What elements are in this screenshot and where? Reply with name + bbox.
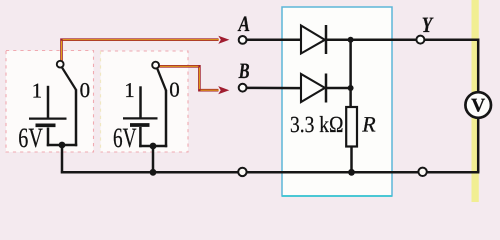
- svg-text:3.3 kΩ: 3.3 kΩ: [290, 112, 344, 137]
- terminal A: [239, 36, 247, 44]
- diode D2: [301, 74, 326, 103]
- bottom rail middle segment: [247, 171, 418, 174]
- switch S2 pivot: [152, 62, 159, 69]
- svg-text:0: 0: [169, 78, 180, 102]
- switch S1 blade: [62, 67, 76, 90]
- svg-text:B: B: [238, 58, 250, 83]
- wire: diode D1 cathode to Y terminal: [326, 39, 416, 42]
- battery B1: [29, 119, 67, 147]
- dashed left edge of box 2 (faded): [100, 51, 102, 152]
- node: S2 cell junction: [150, 143, 157, 150]
- diode D1: [301, 25, 326, 54]
- bottom rail left segment: [61, 171, 238, 174]
- wire: S1 cell to main bottom rail: [61, 145, 64, 171]
- terminal Y: [416, 36, 424, 44]
- svg-text:1: 1: [124, 78, 135, 102]
- svg-text:0: 0: [80, 78, 91, 102]
- terminal on bottom rail right: [418, 168, 426, 176]
- arrowhead to B: [218, 86, 229, 94]
- voltmeter V: [465, 92, 491, 118]
- terminal B: [239, 84, 247, 92]
- battery B2: [123, 118, 158, 147]
- wire: diode D2 cathode to node, vertical junction to D1 node and resistor: [326, 40, 351, 107]
- wire: voltmeter bottom to bottom rail: [477, 118, 480, 173]
- white fill of diode gate box: [282, 7, 392, 196]
- svg-text:6V: 6V: [113, 123, 137, 154]
- red wire from switch S1 pivot to terminal A: [62, 40, 219, 62]
- node: S2 main rail junction: [150, 169, 157, 176]
- switch S2 contact 1 wire: [139, 86, 142, 118]
- battery B1 bottom rail: [47, 144, 77, 147]
- wire: resistor bottom to bottom rail: [350, 147, 353, 173]
- white fill of switch box 1: [6, 51, 94, 153]
- dashed box around switch 1: [6, 51, 94, 153]
- terminal on bottom rail left: [238, 168, 246, 176]
- battery B2 bottom rail: [139, 145, 167, 148]
- wire: A terminal to diode D1: [247, 39, 301, 42]
- svg-text:6V: 6V: [18, 123, 43, 154]
- svg-text:A: A: [237, 11, 250, 36]
- node: S1 cell junction: [59, 142, 66, 149]
- bottom rail right segment: [427, 171, 480, 174]
- wire: B terminal to diode D2: [247, 87, 301, 90]
- cyan box around diode gate: [282, 7, 392, 196]
- wire: S2 cell to main bottom rail: [152, 146, 155, 172]
- node: D1 output junction: [348, 37, 354, 43]
- switch S2 blade: [157, 68, 166, 90]
- node: resistor bottom rail junction: [348, 169, 355, 176]
- yellow highlight band: [472, 0, 479, 202]
- resistor R body: [346, 107, 357, 147]
- switch S1 pivot: [57, 61, 64, 68]
- svg-text:R: R: [361, 111, 376, 136]
- switch S1 contact 0 wire: [75, 89, 78, 146]
- node: D2 output junction: [348, 85, 354, 91]
- wire: Y terminal to right corner and down to voltmeter: [424, 40, 478, 92]
- svg-text:V: V: [471, 96, 485, 117]
- switch S1 contact 1 wire: [47, 86, 50, 118]
- cyan box bottom edge brighter: [282, 195, 392, 197]
- white fill of switch box 2: [101, 51, 189, 153]
- arrowhead to A: [218, 36, 229, 44]
- dashed box around switch 2: [101, 51, 189, 152]
- switch S2 contact 0 wire: [165, 90, 168, 147]
- svg-text:1: 1: [32, 79, 42, 103]
- red wire from switch S2 pivot to terminal B: [159, 66, 218, 90]
